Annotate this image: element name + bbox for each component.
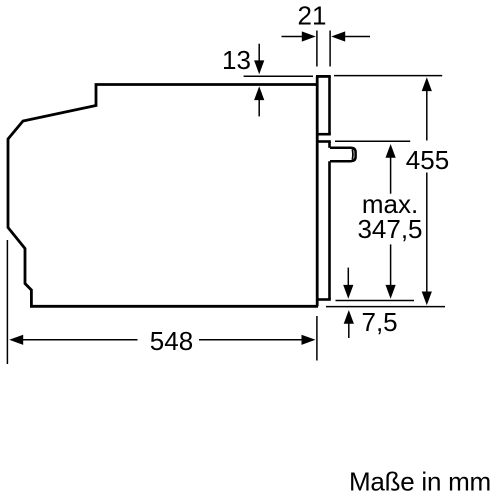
front panel top edge [316, 75, 331, 78]
door right edge below handle [328, 161, 331, 299]
dim 347,5 top reference line [335, 140, 410, 142]
dim 548 left extension line [6, 240, 8, 364]
dim 455 bottom arrow [422, 292, 432, 306]
dim 7,5 up arrow [344, 310, 354, 324]
door right edge above handle [328, 142, 331, 148]
dim 21 left arrow [282, 36, 304, 38]
dim 455 top arrow [422, 77, 432, 91]
svg-text:347,5: 347,5 [357, 214, 422, 244]
door top edge [316, 140, 331, 143]
dim 548 left arrow [9, 335, 23, 345]
fascia right edge [328, 76, 331, 134]
handle end inner line [351, 149, 354, 159]
dim 347,5 bottom arrow [386, 285, 396, 299]
dim 347,5 line lower part [390, 244, 392, 285]
dim 455 top extension line [334, 75, 442, 77]
oven body outline [8, 85, 318, 307]
dim 21 extension line left [316, 31, 318, 67]
svg-text:7,5: 7,5 [362, 307, 398, 337]
dim 21 extension line right [329, 31, 331, 67]
svg-text:Maße in mm: Maße in mm [349, 467, 491, 497]
dim 7,5 upper reference line [336, 300, 415, 302]
svg-text:455: 455 [406, 145, 449, 175]
dim 21 right arrow [331, 31, 345, 41]
svg-text:21: 21 [298, 1, 327, 31]
door handle [330, 148, 356, 161]
fascia bottom edge [316, 133, 331, 136]
dim 347,5 top arrow [386, 144, 396, 158]
front panel left edge [316, 77, 319, 307]
dim 7,5 lower reference line [326, 306, 445, 308]
svg-text:13: 13 [222, 45, 251, 75]
dim 13 up arrow [254, 86, 264, 100]
dim 13 down arrow [258, 44, 260, 61]
svg-text:548: 548 [150, 326, 193, 356]
dim 548 right extension line [316, 316, 318, 361]
dim 7,5 down arrow [347, 268, 349, 286]
dim 548 right segment [199, 339, 302, 341]
dim 13 reference line [244, 75, 313, 77]
door bottom edge [316, 298, 331, 301]
dim 455 line lower part [426, 173, 428, 293]
dim 548 right arrow [302, 335, 316, 345]
